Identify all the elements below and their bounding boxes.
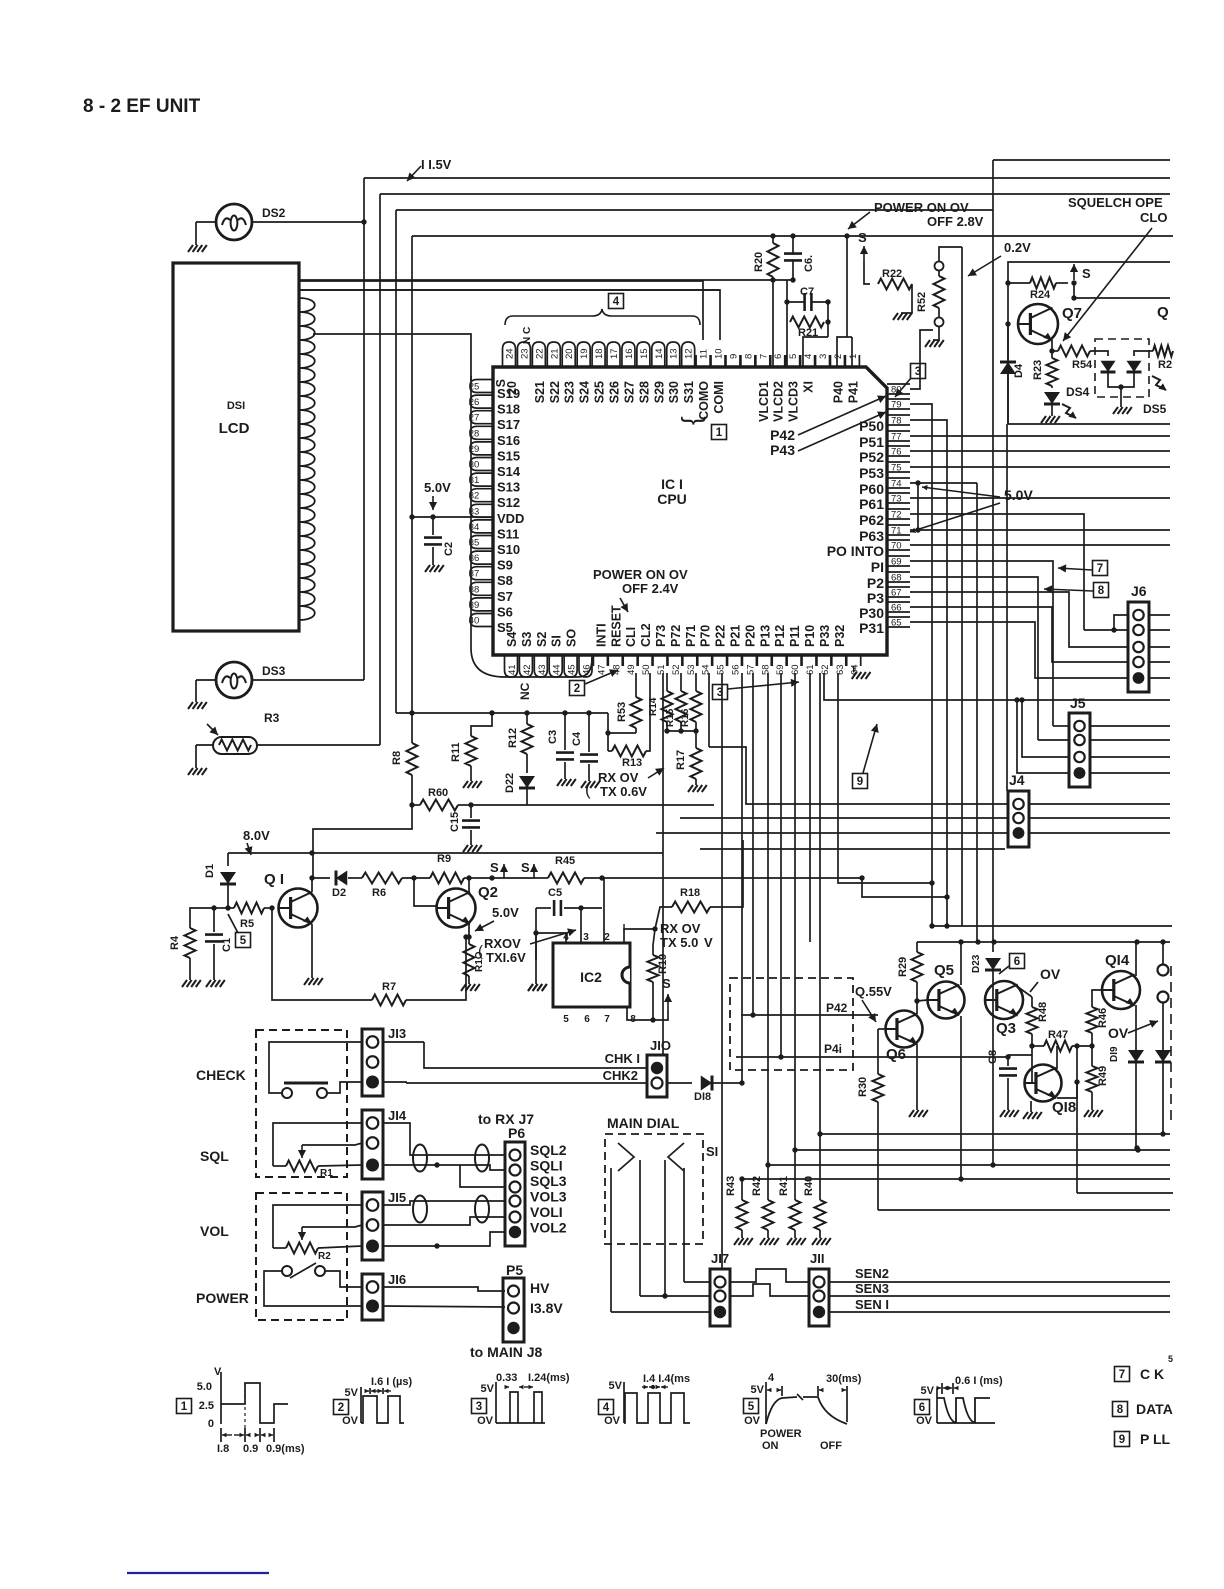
svg-text:5V: 5V (921, 1385, 935, 1397)
svg-text:R2: R2 (1158, 359, 1172, 371)
wire (313, 805, 412, 878)
node (524, 710, 529, 715)
svg-text:P42: P42 (826, 1001, 848, 1015)
svg-text:23: 23 (519, 348, 530, 359)
wire rail x379 (379, 194, 381, 745)
svg-text:P72: P72 (669, 625, 683, 647)
svg-text:OV: OV (342, 1415, 359, 1427)
svg-text:8 - 2 EF UNIT: 8 - 2 EF UNIT (83, 96, 201, 117)
wire CHK1 (424, 1042, 647, 1068)
svg-text:S14: S14 (497, 464, 521, 479)
wire Q18 gnd (1030, 1100, 1032, 1102)
svg-text:8.0V: 8.0V (243, 828, 270, 843)
svg-text:D22: D22 (504, 773, 516, 793)
diode DS5b (1134, 351, 1149, 356)
svg-text:C1: C1 (221, 938, 233, 952)
wire (327, 1082, 362, 1093)
svg-text:18: 18 (594, 348, 605, 359)
wire IC2 pin1 (624, 929, 655, 943)
svg-text:7: 7 (758, 354, 769, 359)
svg-text:C6.: C6. (803, 255, 815, 272)
wire rail y194 (380, 193, 1170, 195)
svg-text:4: 4 (613, 296, 620, 308)
connector J6 (1128, 602, 1149, 692)
svg-text:5V: 5V (481, 1383, 495, 1395)
svg-text:53: 53 (686, 664, 697, 675)
wire (1051, 340, 1053, 351)
wire rail x932 (910, 404, 932, 926)
resistor R22 (878, 279, 912, 290)
wire Q5 emitter (960, 1016, 962, 1179)
wire row67 (910, 592, 1128, 647)
svg-text:JII: JII (810, 1251, 824, 1266)
twist (475, 1145, 489, 1172)
waveform 3 (472, 1399, 487, 1414)
wire P43 arrow (798, 412, 886, 451)
capacitor C6 (784, 252, 802, 255)
svg-text:RX OV: RX OV (660, 921, 701, 936)
svg-text:R17: R17 (675, 750, 687, 770)
capacitor C4 (588, 713, 590, 752)
svg-text:P61: P61 (859, 496, 884, 512)
connector J11 (809, 1269, 829, 1326)
svg-text:CHECK: CHECK (196, 1067, 246, 1083)
svg-text:VOLI: VOLI (530, 1204, 563, 1220)
S arrow (503, 864, 505, 878)
wire (1029, 832, 1170, 834)
svg-text:24: 24 (505, 348, 516, 359)
resistor R13 (612, 746, 646, 757)
wire Q18 emitter (1057, 1082, 1077, 1098)
svg-text:DATA: DATA (1136, 1401, 1173, 1417)
resistor R6 (362, 873, 402, 884)
svg-text:S12: S12 (497, 495, 520, 510)
svg-text:68: 68 (891, 573, 902, 584)
wire (1053, 725, 1069, 727)
wire jog (730, 1284, 809, 1296)
svg-text:R12: R12 (507, 728, 519, 748)
ground (1084, 1110, 1089, 1117)
svg-text:1: 1 (848, 354, 859, 359)
capacitor C3 (564, 713, 566, 750)
node (739, 1080, 744, 1085)
resistor R23 (1047, 358, 1058, 386)
S arrow (653, 1010, 668, 1020)
svg-text:POWER: POWER (760, 1428, 802, 1440)
net P42 box (730, 978, 853, 1070)
diode D18 (667, 1082, 692, 1084)
svg-text:2: 2 (574, 683, 580, 695)
transistor Q3 (985, 981, 1023, 1019)
wire SEN1 (830, 1311, 1170, 1313)
svg-text:P11: P11 (788, 625, 802, 647)
svg-text:R6: R6 (372, 887, 386, 899)
svg-text:JI6: JI6 (388, 1272, 406, 1287)
svg-text:7: 7 (1097, 563, 1103, 575)
lamp DS3 (216, 662, 252, 698)
svg-text:S10: S10 (497, 542, 520, 557)
wire (302, 1225, 362, 1227)
svg-text:0.2V: 0.2V (1004, 240, 1031, 255)
svg-text:OFF: OFF (820, 1440, 842, 1452)
svg-text:Q6: Q6 (886, 1046, 906, 1063)
wire (299, 289, 720, 291)
svg-text:I I.5V: I I.5V (421, 157, 452, 172)
connector J17 (710, 1269, 730, 1326)
svg-text:74: 74 (891, 479, 902, 490)
wire (1090, 725, 1170, 727)
wire (1008, 423, 1170, 425)
node (739, 1176, 744, 1181)
wire row77 (910, 435, 1170, 437)
wire VDD (412, 516, 493, 518)
svg-text:SO: SO (565, 629, 579, 647)
switch S1 MAIN DIAL box (605, 1134, 703, 1244)
wire (708, 673, 710, 747)
wire (1029, 817, 1170, 819)
svg-text:P2: P2 (867, 575, 884, 591)
resistor R48 (1031, 997, 1033, 1007)
wire (768, 1164, 1170, 1166)
svg-text:63: 63 (835, 664, 846, 675)
svg-text:I.24(ms): I.24(ms) (528, 1372, 570, 1384)
resistor R7 (372, 995, 406, 1006)
svg-text:OV: OV (1040, 966, 1061, 982)
wire (848, 212, 870, 229)
wire (803, 337, 828, 367)
IC1 left pin tabs (470, 380, 493, 393)
svg-text:S24: S24 (578, 381, 592, 403)
svg-text:R14: R14 (648, 697, 659, 716)
svg-text:S21: S21 (533, 381, 547, 403)
svg-text:R5: R5 (240, 918, 254, 930)
svg-text:S31: S31 (682, 381, 696, 403)
svg-text:RESET: RESET (609, 605, 623, 647)
svg-text:VOL3: VOL3 (530, 1189, 567, 1205)
IC1 right pin stubs (887, 383, 910, 385)
wire (1017, 700, 1069, 773)
wire (1162, 1003, 1164, 1134)
waveform 5 (744, 1399, 759, 1414)
svg-text:DS2: DS2 (262, 206, 286, 220)
node 4 marker (609, 294, 624, 309)
svg-text:8: 8 (743, 354, 754, 359)
wire (1063, 228, 1152, 341)
svg-text:VOL: VOL (200, 1223, 229, 1239)
wire (608, 732, 636, 734)
svg-text:Q7: Q7 (1062, 305, 1082, 322)
svg-text:P51: P51 (859, 434, 884, 450)
svg-text:XI: XI (802, 381, 816, 393)
svg-text:JI3: JI3 (388, 1026, 406, 1041)
wire row70 (910, 544, 1170, 546)
wire Q6 base (878, 1028, 890, 1030)
node (1005, 321, 1010, 326)
svg-text:Q3: Q3 (996, 1020, 1016, 1037)
node (958, 939, 963, 944)
node (1074, 1043, 1079, 1048)
svg-text:P6: P6 (508, 1125, 525, 1141)
svg-text:77: 77 (891, 432, 902, 443)
wire Q3 base rail (992, 990, 994, 1165)
svg-text:RX OV: RX OV (598, 770, 639, 785)
svg-text:MAIN DIAL: MAIN DIAL (607, 1115, 680, 1131)
svg-text:5V: 5V (609, 1380, 623, 1392)
svg-text:J5: J5 (1070, 695, 1086, 711)
wire (383, 1165, 505, 1170)
IC1 bottom pin tabs (505, 655, 518, 677)
svg-text:to RX J7: to RX J7 (478, 1111, 534, 1127)
wire (264, 1271, 362, 1306)
svg-text:VDD: VDD (497, 511, 524, 526)
svg-text:INTI: INTI (594, 623, 608, 647)
ground (1120, 387, 1122, 407)
svg-text:55: 55 (716, 664, 727, 675)
switch CHECK (284, 1082, 328, 1085)
wire (786, 280, 788, 302)
connector J10 (647, 1055, 667, 1097)
resistor R40 (815, 1200, 826, 1230)
node (409, 802, 414, 807)
svg-text:R43: R43 (725, 1176, 737, 1196)
wire Q14 emitter (1135, 1005, 1137, 1148)
wire (383, 1306, 505, 1307)
svg-text:DS3: DS3 (262, 664, 286, 678)
wire (819, 673, 821, 1134)
wire (383, 1041, 424, 1043)
wire (664, 1160, 666, 1296)
lamp DS2 (216, 204, 252, 240)
wire (837, 337, 847, 367)
wire (786, 322, 788, 367)
label 8 DATA (1113, 1402, 1128, 1417)
svg-text:P50: P50 (859, 418, 884, 434)
svg-text:C K: C K (1140, 1366, 1164, 1382)
wire (1038, 739, 1069, 741)
light rays (1152, 376, 1167, 391)
capacitor C8 (1007, 1055, 1009, 1066)
svg-text:HV: HV (530, 1280, 550, 1296)
capacitor C2 (432, 517, 434, 535)
svg-text:R29: R29 (897, 957, 909, 977)
svg-text:S17: S17 (497, 417, 520, 432)
wire (383, 1082, 406, 1083)
wire (864, 262, 870, 284)
svg-text:P3: P3 (867, 590, 884, 606)
node (1160, 1131, 1165, 1136)
wire (1076, 1046, 1078, 1193)
wire (741, 673, 743, 1083)
wire rail x364 (363, 178, 365, 680)
wire (406, 937, 466, 1000)
wire 8V rail (228, 852, 663, 854)
diode D23 (992, 942, 994, 952)
svg-text:Q5: Q5 (934, 962, 954, 979)
svg-text:S22: S22 (548, 381, 562, 403)
node 6 marker (1010, 954, 1025, 969)
svg-text:SEN2: SEN2 (855, 1266, 889, 1281)
node (586, 710, 591, 715)
S arrow (533, 864, 535, 878)
connector J15 (362, 1192, 383, 1260)
ground (925, 340, 930, 347)
ground (461, 984, 466, 991)
node (225, 905, 230, 910)
wire (580, 908, 582, 943)
svg-text:RXOV: RXOV (484, 936, 521, 951)
wire (269, 1042, 362, 1093)
svg-text:5: 5 (563, 1014, 569, 1025)
resistor R21 (790, 317, 824, 328)
resistor R17 (691, 748, 702, 779)
wire Q1 collector (311, 878, 313, 892)
node (765, 1162, 770, 1167)
transistor Q6 (886, 1011, 923, 1048)
wire (824, 673, 1170, 700)
resistor R8 (411, 713, 413, 743)
svg-text:D1: D1 (204, 864, 216, 878)
wire rail x1007 (1006, 424, 1008, 791)
node 3 marker (911, 364, 926, 379)
svg-text:DI9: DI9 (1109, 1046, 1120, 1062)
diode DS4 LED (1044, 392, 1060, 404)
wire (383, 1287, 505, 1291)
svg-text:56: 56 (731, 664, 742, 675)
wire (1149, 614, 1170, 616)
switch POWER (282, 1266, 292, 1276)
svg-text:19: 19 (579, 348, 590, 359)
svg-text:6: 6 (773, 354, 784, 359)
svg-text:to MAIN J8: to MAIN J8 (470, 1344, 543, 1360)
wire Q14 collector (1135, 942, 1137, 976)
svg-text:S30: S30 (667, 381, 681, 403)
svg-text:Q2: Q2 (478, 884, 498, 901)
svg-text:2: 2 (338, 1402, 344, 1414)
svg-text:J4: J4 (1009, 772, 1025, 788)
svg-text:4: 4 (768, 1372, 775, 1384)
label 7 CK (1115, 1367, 1130, 1382)
capacitor C5 (536, 907, 551, 909)
wire row75 (910, 466, 1170, 468)
svg-text:S: S (858, 230, 867, 245)
wire (610, 1168, 612, 1312)
svg-text:79: 79 (891, 400, 902, 411)
wire (820, 1133, 1170, 1135)
op-amp U2 IC2 box (553, 943, 630, 1007)
svg-text:POWER ON OV: POWER ON OV (874, 200, 969, 215)
connector P5 (503, 1278, 524, 1342)
resistor R10 (464, 944, 475, 976)
wire frame (993, 159, 1170, 161)
resistor R20 (768, 243, 779, 277)
svg-text:R3: R3 (264, 711, 280, 725)
svg-text:S13: S13 (497, 480, 520, 495)
svg-text:CLI: CLI (624, 627, 638, 647)
wire (667, 730, 696, 732)
ground (1030, 1101, 1032, 1112)
svg-text:DS4: DS4 (1066, 385, 1090, 399)
resistor R11 (471, 713, 492, 736)
svg-text:12: 12 (684, 348, 695, 359)
svg-text:OFF 2.8V: OFF 2.8V (927, 214, 984, 229)
svg-text:SEN I: SEN I (855, 1297, 889, 1312)
wire (383, 1123, 505, 1155)
svg-text:S26: S26 (608, 381, 622, 403)
svg-text:OV: OV (604, 1415, 621, 1427)
wire Q6 collector (916, 1001, 918, 1014)
svg-text:14: 14 (654, 348, 665, 359)
svg-text:16: 16 (624, 348, 635, 359)
waveform 1 (177, 1399, 192, 1414)
wire row73 (910, 497, 1170, 499)
svg-text:47: 47 (596, 664, 607, 675)
node (1135, 1147, 1140, 1152)
capacitor C15 (470, 805, 472, 818)
svg-text:P4i: P4i (824, 1042, 842, 1056)
svg-text:54: 54 (701, 664, 712, 675)
wire rail x947 (910, 420, 947, 926)
resistor R4 (190, 908, 214, 928)
resistor R24 (1030, 278, 1056, 289)
dashed edge (1170, 966, 1172, 1125)
wire row66 (910, 607, 1128, 662)
switch contacts (618, 1143, 634, 1171)
svg-text:C4: C4 (571, 731, 583, 746)
svg-text:P73: P73 (654, 625, 668, 647)
svg-text:S29: S29 (652, 381, 666, 403)
svg-text:C3: C3 (547, 730, 559, 744)
svg-text:PI: PI (871, 559, 884, 575)
twist (413, 1145, 427, 1172)
wire (383, 1201, 505, 1205)
node (1134, 939, 1139, 944)
wire (1084, 629, 1128, 631)
wire (536, 932, 566, 934)
svg-text:5.0V: 5.0V (424, 480, 451, 495)
transistor Q5 (928, 982, 965, 1019)
wire (611, 1311, 710, 1313)
svg-text:3: 3 (583, 932, 589, 943)
svg-text:R16: R16 (680, 708, 691, 727)
svg-text:COMI: COMI (712, 381, 726, 414)
svg-text:69: 69 (891, 557, 902, 568)
wire (383, 1232, 505, 1246)
scan mark (127, 1572, 269, 1574)
wire (827, 302, 829, 322)
svg-text:5: 5 (1168, 1354, 1173, 1364)
wire rail x412 (411, 236, 413, 713)
svg-text:71: 71 (891, 526, 902, 537)
svg-text:R8: R8 (391, 751, 403, 765)
wire (468, 922, 470, 937)
wire 11.5V rail (364, 177, 1170, 179)
wire (396, 712, 608, 714)
svg-text:R13: R13 (622, 757, 642, 769)
svg-text:SQUELCH OPE: SQUELCH OPE (1068, 195, 1163, 210)
svg-text:D23: D23 (971, 954, 982, 973)
wire (656, 832, 1008, 834)
svg-text:5.0V: 5.0V (492, 905, 519, 920)
svg-text:R47: R47 (1048, 1029, 1068, 1041)
node (468, 802, 473, 807)
resistor R9 (430, 873, 464, 884)
resistor R25 (1153, 346, 1173, 357)
svg-text:S18: S18 (497, 402, 520, 417)
wire (780, 673, 782, 1057)
wire (680, 817, 1008, 819)
svg-text:POWER ON OV: POWER ON OV (593, 567, 688, 582)
svg-text:44: 44 (552, 664, 563, 675)
